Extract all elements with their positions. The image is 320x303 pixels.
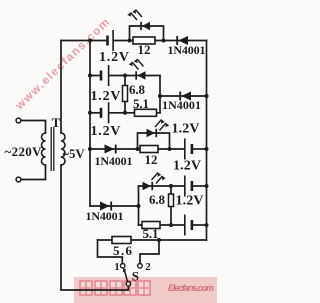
junction (125,75.5) xyxy=(123,74,127,78)
switch S contact 1 xyxy=(120,264,125,269)
battery B6 1.2V (row7 right) xyxy=(184,215,193,236)
svg-text:1N4001: 1N4001 xyxy=(86,209,124,223)
junction (171,186) xyxy=(169,184,173,188)
watermark band (bottom-right, pink) xyxy=(74,277,217,303)
svg-text:1.2V: 1.2V xyxy=(176,194,204,209)
resistor R5 6.8 (ch4, vertical) xyxy=(169,194,174,207)
wire: switch contact2 riser xyxy=(140,240,159,263)
diode D8 1N4001 (ch4, points right) xyxy=(100,202,112,211)
junction (129.5,40.5) xyxy=(128,39,132,43)
wire: transformer secondary top lead to top rail xyxy=(60,41,62,134)
switch S contact 2 xyxy=(138,264,143,269)
svg-text:5.6: 5.6 xyxy=(113,243,133,258)
wire: switch contact1 riser xyxy=(98,240,123,263)
wire: ch2 6.8 stubs xyxy=(124,76,126,86)
wire: row7 xyxy=(139,224,185,226)
terminal: mains top xyxy=(16,118,21,123)
diode D2 1N4001 (ch1, points left) xyxy=(176,36,188,45)
terminal: mains bottom xyxy=(16,177,21,182)
svg-text:1.2V: 1.2V xyxy=(99,50,129,65)
wire: left rail xyxy=(89,41,91,207)
junction (160,96) xyxy=(158,94,162,98)
svg-text:5.1: 5.1 xyxy=(143,226,159,241)
junction (90,75.5) xyxy=(88,74,92,78)
wire: ch3 LED loop xyxy=(138,133,170,149)
resistor R2 6.8 (ch2, vertical) xyxy=(123,86,128,102)
junction (206.5,186) xyxy=(205,184,209,188)
LED D1 (ch1, points left) xyxy=(127,9,150,30)
resistor R7 5.6 (bottom) xyxy=(112,237,131,244)
svg-text:5.1: 5.1 xyxy=(133,96,149,111)
svg-text:~5V: ~5V xyxy=(63,147,85,161)
svg-text:6.8: 6.8 xyxy=(149,192,166,207)
junction (171,225) xyxy=(169,223,173,227)
svg-text:12: 12 xyxy=(145,152,158,167)
wire: ch4 left connector xyxy=(138,186,140,225)
junction (169.5,149) xyxy=(168,147,172,151)
battery B3 1.2V (row3) xyxy=(100,102,110,123)
watermark www.elecfans.com (diagonal, top-left) xyxy=(13,16,113,113)
svg-text:Elecfans.com: Elecfans.com xyxy=(168,283,214,293)
svg-text:1.2V: 1.2V xyxy=(91,89,121,104)
svg-text:1.2V: 1.2V xyxy=(172,122,200,137)
wire: bottom row (5.6 row) xyxy=(98,239,207,241)
transformer T secondary winding xyxy=(61,133,65,165)
battery B2 1.2V (row2) xyxy=(100,65,110,86)
battery B1 1.2V (row1) xyxy=(106,30,114,51)
wire: ch1 LED loop xyxy=(130,26,164,41)
wire: transformer secondary bottom lead to switch pole xyxy=(61,165,128,290)
svg-text:2: 2 xyxy=(145,261,151,273)
svg-text:S: S xyxy=(132,269,139,284)
LED D3 (ch2, points left) xyxy=(129,59,146,80)
junction (90,112.8) xyxy=(88,111,92,115)
switch S pole xyxy=(126,282,131,287)
wire: row6 xyxy=(90,205,139,207)
wire: row2 xyxy=(90,75,100,77)
resistor R1 12 (ch1) xyxy=(133,37,155,44)
wire: ch2 right connector xyxy=(159,76,161,113)
svg-text:1.2V: 1.2V xyxy=(173,159,201,174)
wire: right rail xyxy=(206,41,208,241)
transformer T primary winding xyxy=(42,133,46,165)
battery B4 1.2V (row4 right) xyxy=(184,139,193,160)
resistor R6 5.1 (ch4) xyxy=(142,222,160,229)
resistor R4 12 (ch3) xyxy=(140,146,158,153)
transformer T core xyxy=(51,127,54,171)
junction (90,149) xyxy=(88,147,92,151)
resistor R3 5.1 (ch2) xyxy=(135,109,157,116)
junction (137.5,149) xyxy=(136,147,140,151)
diode D5 1N4001 (ch3, points right) xyxy=(105,145,117,154)
junction (206.5,96) xyxy=(205,94,209,98)
wire: row3 xyxy=(90,112,100,114)
junction (90,40.5) xyxy=(88,39,92,43)
svg-text:T: T xyxy=(52,115,61,130)
LED D6 (ch3, points right) xyxy=(147,119,170,137)
svg-text:~220V: ~220V xyxy=(5,144,43,159)
svg-text:1N4001: 1N4001 xyxy=(95,154,133,168)
wire: ch2 diode row xyxy=(160,95,207,97)
wire: ch4 6.8 branch xyxy=(170,186,172,225)
wire: transformer primary bottom lead xyxy=(21,165,46,180)
junction (138.5,206) xyxy=(137,204,141,208)
junction (206.5,225) xyxy=(205,223,209,227)
junction (206.5,149) xyxy=(205,147,209,151)
wire: row5 xyxy=(139,185,185,187)
junction (159,240) xyxy=(157,238,161,242)
junction (163.5,40.5) xyxy=(162,39,166,43)
LED D7 (ch4, points right) xyxy=(143,172,166,190)
svg-text:1: 1 xyxy=(114,261,120,273)
svg-text:1N4001: 1N4001 xyxy=(162,98,201,112)
wire: transformer primary top lead xyxy=(21,121,46,134)
battery B5 1.2V (row5 right) xyxy=(184,176,193,197)
svg-text:6.8: 6.8 xyxy=(129,82,146,97)
wire: row4 xyxy=(90,148,184,150)
svg-text:1.2V: 1.2V xyxy=(91,124,121,139)
svg-text:12: 12 xyxy=(138,42,151,57)
switch S arm xyxy=(123,268,128,282)
svg-text:1N4001: 1N4001 xyxy=(168,43,206,57)
diode D4 1N4001 (ch2, points left) xyxy=(179,92,191,101)
wire: top rail / row1 xyxy=(61,40,106,42)
junction (125,112.8) xyxy=(123,111,127,115)
